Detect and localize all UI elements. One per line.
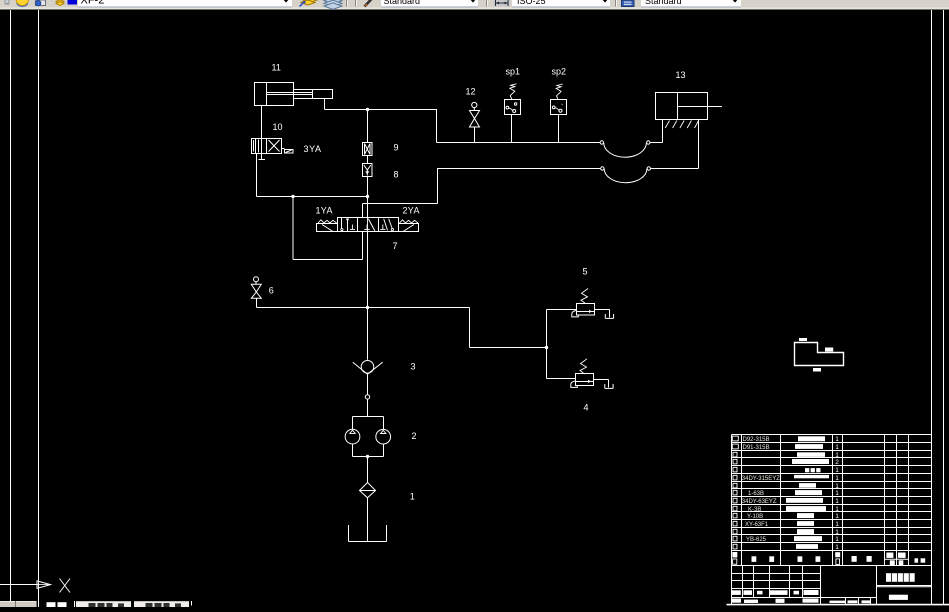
svg-text:sp2: sp2	[552, 67, 567, 77]
svg-text:1: 1	[835, 513, 839, 520]
svg-text:1: 1	[835, 436, 839, 443]
svg-text:1YA: 1YA	[316, 206, 333, 216]
svg-text:1: 1	[835, 536, 839, 543]
svg-text:D91-315B: D91-315B	[743, 445, 770, 451]
svg-text:1: 1	[835, 506, 839, 513]
svg-text:1: 1	[835, 490, 839, 497]
svg-text:11: 11	[272, 63, 281, 73]
svg-text:1-63B: 1-63B	[748, 491, 764, 497]
svg-text:4: 4	[584, 403, 589, 413]
svg-text:YB-625: YB-625	[746, 537, 767, 543]
svg-text:3YA: 3YA	[304, 144, 322, 154]
svg-text:5: 5	[583, 267, 588, 277]
svg-text:1: 1	[835, 483, 839, 490]
svg-text:1: 1	[835, 452, 839, 459]
svg-text:2: 2	[412, 431, 417, 441]
svg-text:sp1: sp1	[506, 67, 521, 77]
svg-text:34DY-63EYZ: 34DY-63EYZ	[742, 499, 777, 505]
svg-text:2: 2	[835, 459, 839, 466]
svg-text:D92-315B: D92-315B	[743, 437, 770, 443]
svg-text:K-3B: K-3B	[748, 507, 761, 513]
svg-text:12: 12	[466, 87, 476, 97]
svg-text:1: 1	[410, 492, 415, 502]
svg-text:1: 1	[835, 444, 839, 451]
svg-text:1: 1	[835, 498, 839, 505]
svg-text:34DY-315EYZ: 34DY-315EYZ	[742, 476, 780, 482]
svg-text:3: 3	[411, 362, 416, 372]
svg-text:13: 13	[676, 70, 686, 80]
svg-text:Standard: Standard	[384, 0, 421, 6]
svg-text:ISO-25: ISO-25	[517, 0, 546, 6]
svg-text:7: 7	[393, 241, 398, 251]
svg-text:Y-10B: Y-10B	[747, 514, 763, 520]
svg-text:Standard: Standard	[645, 0, 682, 6]
svg-text:1: 1	[835, 544, 839, 551]
svg-text:XF-2: XF-2	[81, 0, 105, 7]
svg-text:1: 1	[835, 475, 839, 482]
svg-text:1: 1	[835, 529, 839, 536]
svg-text:9: 9	[394, 143, 399, 153]
svg-text:6: 6	[269, 286, 274, 296]
svg-text:1: 1	[835, 467, 839, 474]
svg-text:8: 8	[394, 170, 399, 180]
svg-text:2YA: 2YA	[403, 206, 420, 216]
svg-text:10: 10	[273, 122, 283, 132]
svg-text:1: 1	[835, 521, 839, 528]
svg-text:XY-63F1: XY-63F1	[745, 522, 769, 528]
